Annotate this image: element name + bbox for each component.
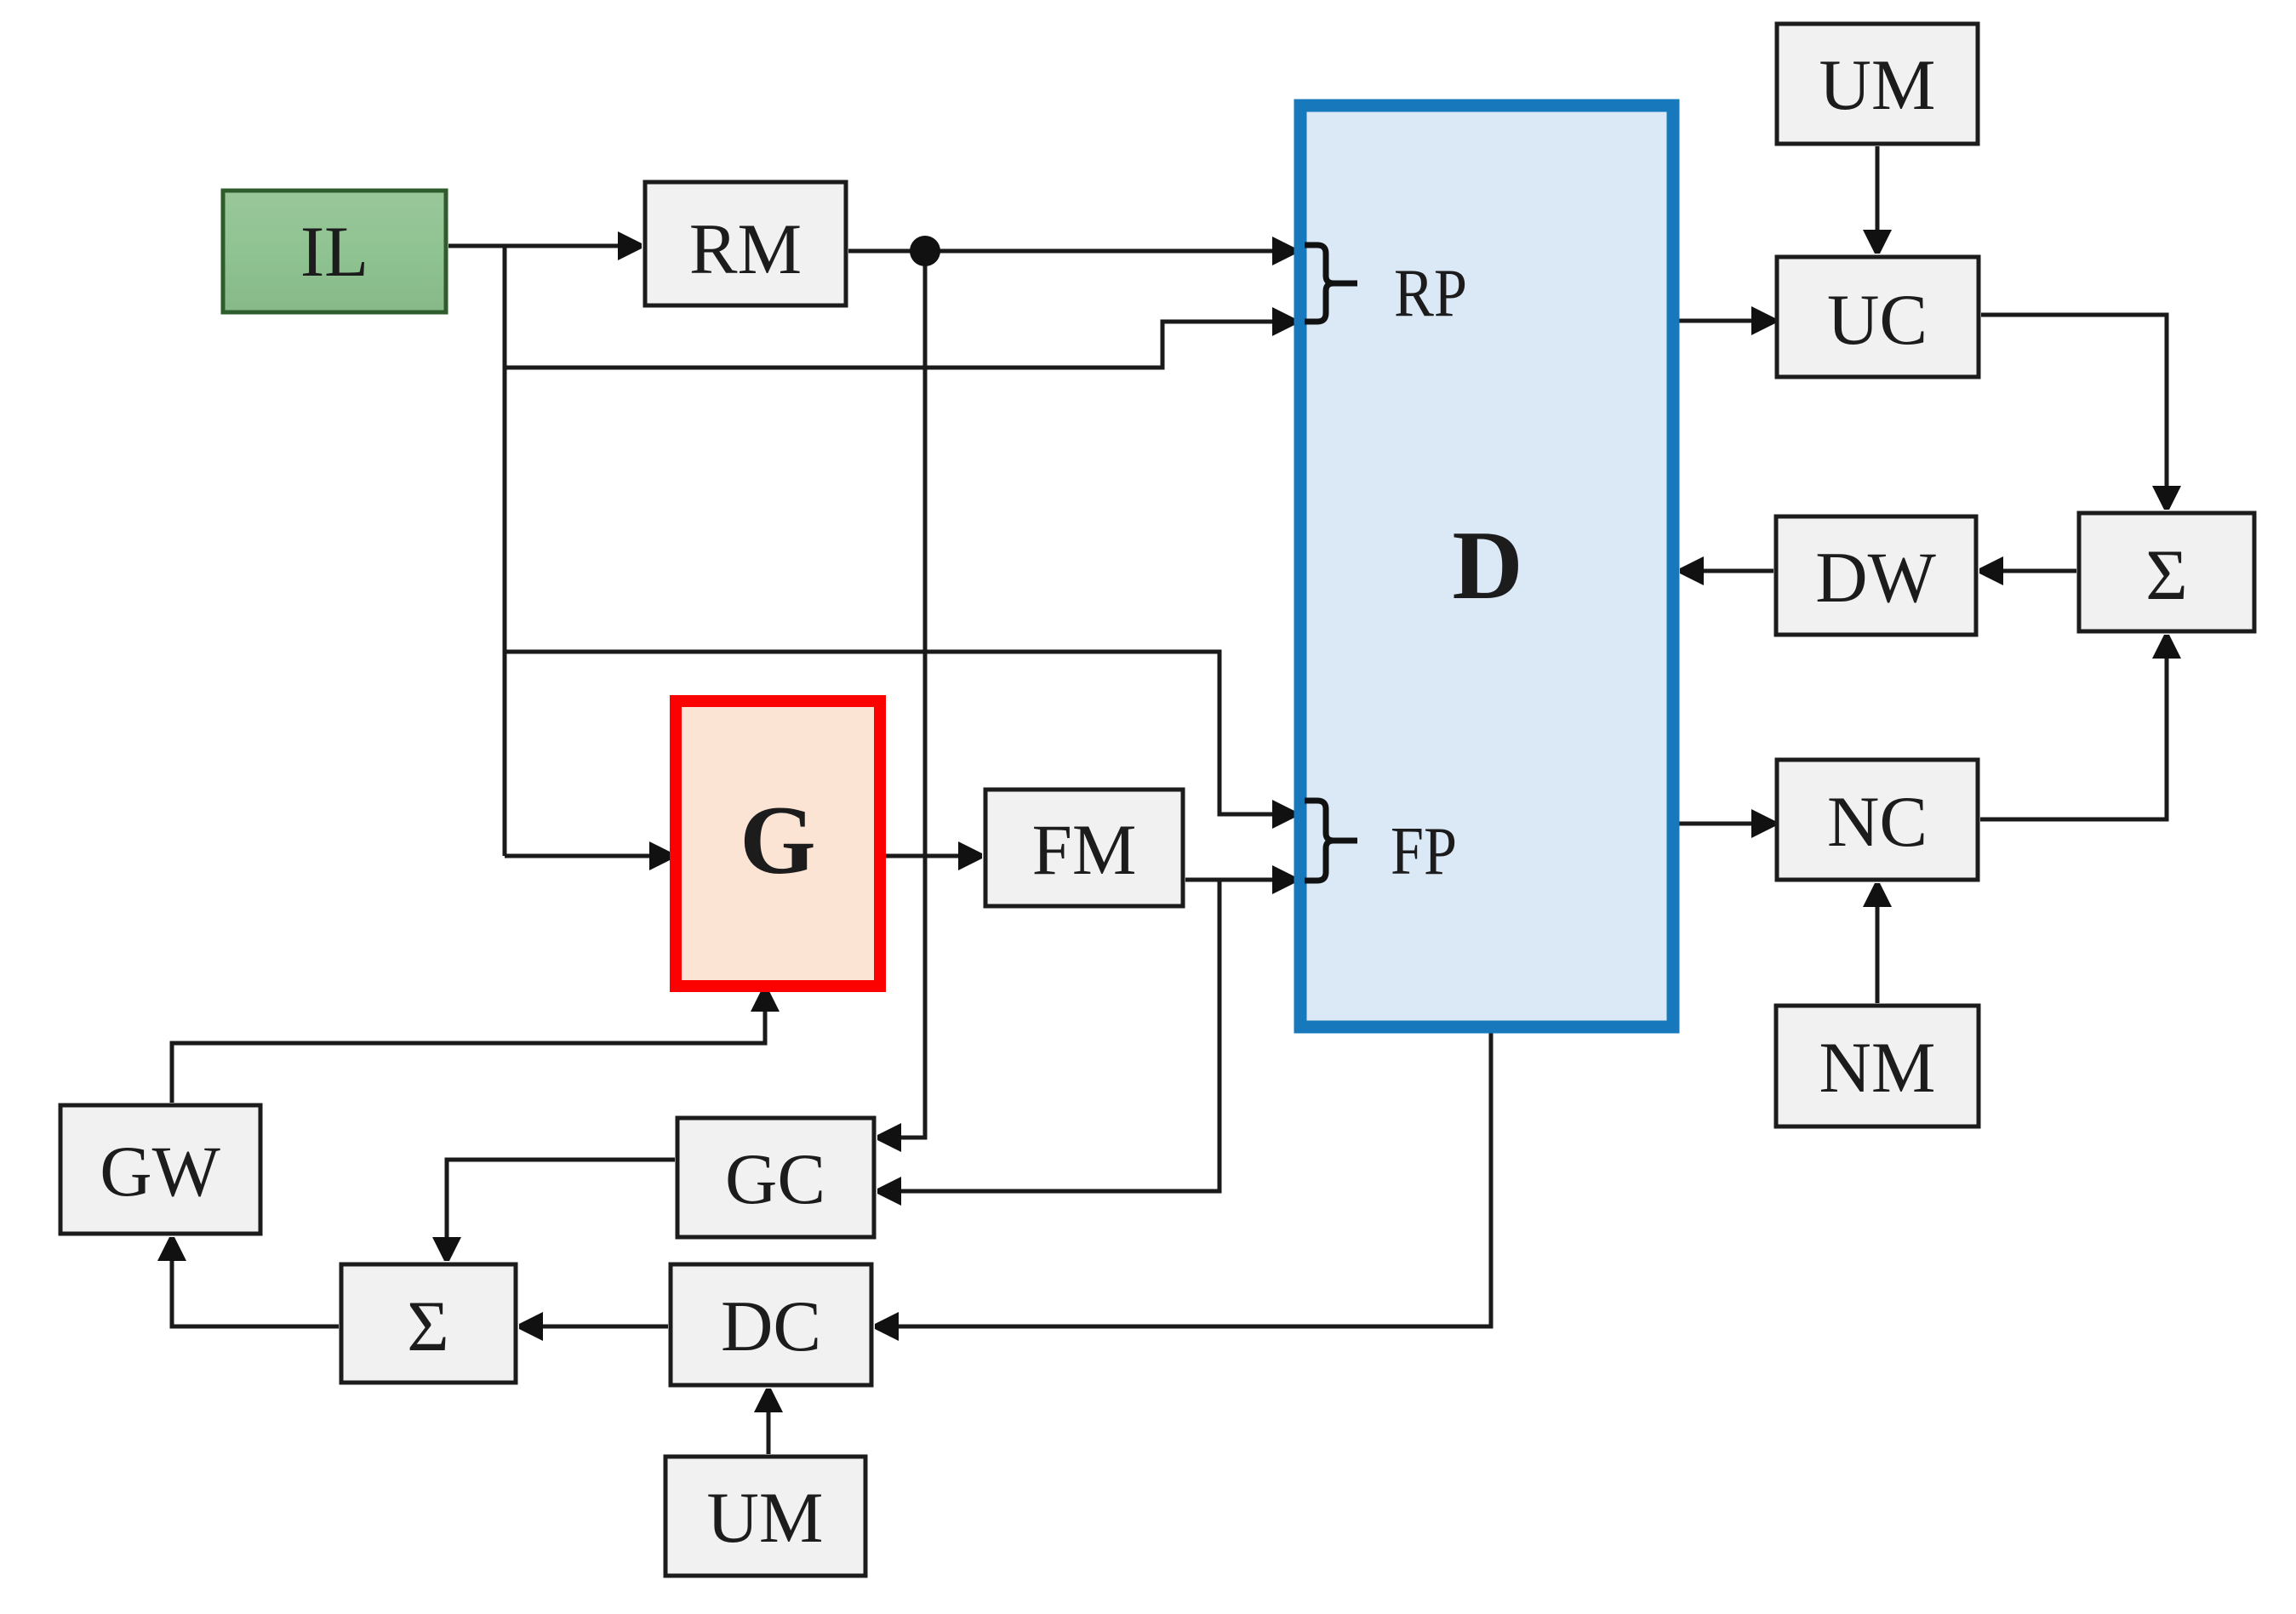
- svg-text:D: D: [1452, 511, 1522, 619]
- svg-text:NM: NM: [1819, 1028, 1936, 1108]
- svg-text:RM: RM: [689, 209, 802, 289]
- svg-text:RP: RP: [1394, 256, 1467, 331]
- svg-text:G: G: [740, 786, 815, 894]
- svg-text:DC: DC: [721, 1286, 821, 1366]
- svg-text:NC: NC: [1827, 782, 1928, 862]
- svg-text:Σ: Σ: [2145, 535, 2187, 615]
- svg-text:UM: UM: [1819, 45, 1936, 125]
- svg-text:FP: FP: [1391, 814, 1457, 889]
- svg-text:GW: GW: [100, 1132, 220, 1212]
- svg-text:IL: IL: [300, 212, 368, 292]
- svg-text:DW: DW: [1815, 538, 1936, 618]
- svg-text:UM: UM: [707, 1478, 824, 1558]
- svg-text:FM: FM: [1032, 810, 1137, 890]
- svg-text:GC: GC: [725, 1139, 825, 1219]
- svg-text:UC: UC: [1827, 280, 1928, 360]
- svg-text:Σ: Σ: [407, 1286, 448, 1366]
